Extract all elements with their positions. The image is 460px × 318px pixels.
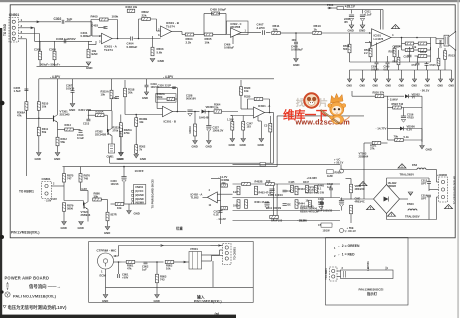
svg-text:R402B: R402B: [255, 180, 263, 184]
ground VT321: [79, 222, 84, 225]
wire IC301A out: [265, 112, 274, 114]
watermark mascot belly: [334, 117, 340, 123]
capacitor C302 series: [62, 20, 64, 24]
wire hl: [340, 198, 352, 200]
op-amp IC602-C: [231, 28, 242, 37]
resistor R500A ladder: [308, 187, 317, 190]
wire C405 left: [204, 13, 214, 15]
wire fb4 left v: [247, 99, 249, 109]
wire top rail power: [344, 9, 384, 11]
watermark mascot eyes: [334, 108, 341, 113]
wire r875 down: [63, 182, 65, 200]
junction C408: [295, 32, 297, 34]
resistor R500v: [350, 205, 353, 214]
svg-text:(4)SWH: (4)SWH: [135, 202, 144, 205]
wire c328 to diode: [193, 111, 200, 113]
ground below R603: [150, 59, 155, 62]
resistor R520: [375, 95, 384, 98]
wire ladder vertical B: [276, 184, 278, 221]
svg-text:FB2: FB2: [412, 163, 418, 167]
capacitor C318: [115, 97, 119, 99]
junction IC301B out: [177, 111, 179, 113]
wire r325 down: [194, 136, 196, 140]
bottom right box frame: [326, 238, 409, 306]
connector CN501: [9, 18, 19, 43]
ground row bottom power 2: [360, 79, 364, 82]
wire vt801 out1: [202, 254, 217, 256]
svg-text:GND: GND: [69, 108, 75, 112]
ic box IC602: [227, 21, 249, 35]
watermark mascot ears: [328, 104, 346, 108]
wire C302 to node A: [65, 21, 92, 23]
wire out net down1: [401, 38, 403, 44]
wire R314 r: [73, 129, 80, 131]
arrow on pin1 wire: [37, 21, 39, 23]
wire R323 down gnd: [135, 153, 137, 154]
wire lower net l: [402, 49, 406, 51]
svg-text:1N4148: 1N4148: [199, 116, 209, 120]
wire r523 leftv: [387, 96, 389, 107]
svg-text:片: 片: [319, 97, 328, 108]
wire diode to R304: [206, 111, 214, 113]
svg-text:+10.36V: +10.36V: [307, 176, 318, 180]
capacitor C410 ladder: [269, 189, 274, 195]
svg-text:100k: 100k: [112, 15, 119, 19]
svg-text:← 1 = RED: ← 1 = RED: [338, 253, 356, 257]
watermark mascot body: [331, 115, 343, 124]
svg-text:TO KB801: TO KB801: [19, 190, 34, 194]
ground C408: [294, 59, 299, 62]
wire R510 down: [370, 57, 372, 62]
ground right column: [420, 146, 425, 149]
wire base VT302 v: [106, 115, 108, 132]
svg-text:15/1W: 15/1W: [323, 230, 331, 233]
svg-text:GND: GND: [293, 63, 299, 67]
wire base VT302: [104, 114, 107, 116]
resistor R605: [204, 33, 213, 36]
svg-text:TRAL/26SV: TRAL/26SV: [405, 215, 420, 219]
capacitor C802 mic: [144, 262, 148, 264]
svg-text:1.35V: 1.35V: [227, 118, 234, 122]
svg-text:TO SP BOARD SKB-4B: TO SP BOARD SKB-4B: [452, 176, 456, 204]
svg-text:IC602 - CMC4558: IC602 - CMC4558: [231, 22, 242, 29]
svg-text:GND: GND: [104, 231, 110, 235]
ground row bottom power 5: [399, 79, 403, 82]
crystal inner lines: [110, 146, 113, 151]
wire fb4 down: [269, 99, 271, 113]
ground VD303: [193, 141, 198, 144]
wire ic402 right bus: [220, 179, 222, 225]
wire lower down l: [401, 44, 403, 51]
wire c801 up: [118, 262, 120, 274]
wire r518 dn: [398, 65, 400, 70]
capacitor C404 series: [131, 37, 133, 41]
wire fb3 into inv: [157, 108, 162, 110]
capacitor C306: [39, 51, 42, 60]
capacitor C514b: [427, 195, 431, 197]
wire R314 l: [58, 129, 65, 131]
capacitor C303 series: [64, 39, 66, 43]
capacitor C415 ladder: [283, 204, 287, 206]
svg-text:- 4.3FV: - 4.3FV: [163, 75, 174, 79]
wire R315 down: [111, 99, 113, 110]
wire R331 link: [231, 115, 233, 117]
wire ladder rail4: [233, 220, 341, 222]
resistor R449 ladder: [295, 186, 298, 195]
junction node B: [138, 38, 140, 40]
svg-text:C405 100pF: C405 100pF: [210, 8, 226, 12]
svg-text:- 10.36V: - 10.36V: [297, 219, 307, 223]
svg-text:R51: R51: [393, 61, 398, 64]
junction c801: [118, 261, 120, 263]
wire r876 to coll: [80, 182, 82, 190]
wire fb2 up: [138, 19, 140, 39]
wire vt321 coll up: [87, 191, 89, 202]
svg-text:C31: C31: [112, 96, 117, 100]
svg-text:R403 10k: R403 10k: [126, 5, 138, 9]
wire node rail vt302: [88, 110, 112, 112]
resistor R516 lower: [405, 49, 414, 52]
wire bus rail A: [110, 162, 274, 164]
wire ic402 in1: [217, 193, 232, 195]
wire zener rightv: [421, 129, 423, 143]
wire r880 r: [101, 199, 107, 201]
diode VD300 series: [202, 110, 206, 114]
wire R512 down: [430, 47, 432, 62]
watermark mascot hand: [330, 116, 333, 119]
wire box to cn301 b: [217, 254, 220, 256]
capacitor C408: [294, 42, 298, 44]
wire mic top v: [118, 246, 120, 257]
svg-text:GND: GND: [360, 85, 366, 88]
wire b bend up: [219, 250, 221, 255]
capacitor C504 ladder: [318, 203, 323, 209]
resistor R307: [87, 49, 90, 58]
wire ladder top rail: [233, 163, 341, 165]
wire R513 down: [444, 59, 446, 70]
wire gnd drop 1: [349, 70, 351, 79]
transistor VT301: [54, 115, 58, 123]
watermark mascot rod: [321, 110, 340, 124]
svg-text:GND: GND: [412, 85, 418, 88]
capacitor C510 filter: [349, 15, 354, 21]
resistor R514 out net1: [405, 42, 414, 45]
wire c504b dn: [341, 207, 343, 211]
svg-text:GND: GND: [229, 143, 235, 147]
wire c444 up: [321, 198, 323, 203]
wire opamp2 out bend: [181, 32, 183, 35]
junction R325 top: [194, 111, 196, 113]
wire c513 down: [428, 183, 430, 191]
wire mic main2: [122, 261, 149, 263]
capacitor C320 fb: [172, 87, 176, 89]
bottom center box frame: [89, 242, 254, 303]
wire gnd drop 6: [414, 70, 416, 79]
cn201 pin stubs: [132, 190, 134, 204]
svg-text:CM01: CM01: [107, 155, 115, 159]
resistor R405 feedback: [100, 18, 109, 21]
wire c340 down: [123, 183, 125, 204]
svg-text:R511: R511: [389, 50, 396, 54]
ground row bottom power 9: [449, 79, 453, 82]
ground R881: [105, 227, 110, 230]
svg-text:GND: GND: [359, 29, 365, 33]
wire junction to R613: [296, 32, 312, 34]
wire r522 r: [403, 139, 422, 141]
wire C405 left down: [203, 14, 205, 35]
svg-text:GND: GND: [142, 96, 148, 100]
wire C514 up: [409, 47, 411, 55]
wire C307 up: [72, 79, 74, 91]
wire ic402 in2: [217, 199, 220, 201]
wire noninv drop: [260, 121, 262, 139]
svg-text:- 14.77V: - 14.77V: [376, 127, 387, 131]
ground mid br: [408, 192, 413, 195]
wire ic402 top rail: [211, 178, 221, 180]
junction amp out2: [416, 37, 418, 39]
svg-text:5.1k: 5.1k: [404, 135, 410, 139]
wire rail drop C510: [351, 10, 353, 14]
left edge blob 3: [0, 290, 3, 293]
svg-text:R401 47-CB: R401 47-CB: [255, 200, 269, 204]
wire +B feed: [328, 7, 338, 9]
wire gnd drop 5: [401, 70, 403, 79]
wire pin1 to C302: [19, 21, 61, 23]
svg-text:(1)VCC: (1)VCC: [135, 190, 143, 193]
warning triangle near amp: [392, 25, 400, 29]
wire output into speaker2: [436, 43, 444, 45]
wire vt321 base v: [82, 201, 84, 206]
wire r320a down: [120, 137, 122, 153]
wire R310 R311 link: [38, 110, 40, 127]
resistor R523: [393, 106, 402, 109]
svg-text:CN801: CN801: [42, 177, 51, 181]
svg-text:GND: GND: [386, 85, 392, 88]
resistor R320: [135, 118, 138, 127]
resistor R513: [444, 51, 447, 60]
svg-text:C435: C435: [289, 181, 296, 184]
wire net2 r: [427, 43, 431, 45]
svg-text:R447: R447: [303, 181, 310, 184]
resistor R508: [348, 44, 351, 53]
resistor R870: [115, 203, 124, 206]
resistor R316: [95, 114, 104, 117]
wire box to cn301 a: [211, 245, 223, 247]
capacitor C313: [86, 119, 90, 121]
svg-text:C515: C515: [430, 63, 437, 67]
wire lower mid: [414, 49, 419, 51]
wire C349 down: [269, 132, 271, 163]
watermark mascot head: [330, 102, 344, 116]
wire C306 bottom lead: [39, 60, 41, 67]
wire vt321 coll lk: [81, 190, 89, 192]
wire amp output: [391, 37, 436, 39]
connector CN806: [439, 177, 448, 202]
svg-text:TO PWR BOARD SKCEI: TO PWR BOARD SKCEI: [151, 179, 155, 208]
svg-text:10k: 10k: [117, 206, 122, 210]
wire mid mic: [149, 261, 164, 263]
op-amp IC301-A: [254, 107, 265, 118]
page right edge line: [457, 0, 458, 318]
svg-text:电压为无信号时测试(伪机.10V): 电压为无信号时测试(伪机.10V): [8, 304, 68, 311]
ground R879: [62, 222, 67, 225]
zener VD506: [400, 127, 404, 131]
wire amp fb bottom: [350, 61, 431, 63]
svg-text:GND: GND: [192, 145, 198, 149]
svg-text:GND: GND: [426, 148, 432, 152]
transistor VT321: [84, 202, 88, 210]
wire R320 mid: [135, 126, 137, 144]
svg-text:1N-4B210DBR: 1N-4B210DBR: [388, 181, 397, 188]
wire r518 up: [398, 50, 400, 57]
resistor R402B ladder: [266, 183, 275, 186]
wire mic main: [114, 261, 122, 263]
resistor R602 feedback: [142, 18, 151, 21]
wire base rail VT301: [26, 117, 52, 119]
svg-text:- 50.1V: - 50.1V: [420, 89, 429, 93]
wire out2 to conn: [212, 255, 223, 257]
svg-text:← 2 = GREEN: ← 2 = GREEN: [338, 244, 361, 248]
svg-text:GND: GND: [117, 157, 123, 161]
wire R331 down: [231, 130, 233, 138]
wire r870 l: [111, 203, 116, 205]
svg-text:C410 440/10: C410 440/10: [268, 193, 283, 197]
speaker SP501: [444, 32, 456, 51]
wire C349 up: [269, 116, 271, 124]
resistor R876: [79, 174, 82, 183]
resistor R875: [63, 174, 66, 183]
svg-text:C51: C51: [412, 64, 417, 67]
capacitor C421: [219, 211, 223, 213]
wire mic gnd drop: [105, 269, 107, 295]
wire rail to amp vcc: [380, 10, 382, 30]
capacitor C328 series: [187, 110, 192, 116]
wire c443 up: [330, 184, 332, 188]
resistor R519: [437, 58, 440, 66]
page bottom dark bar: [0, 315, 236, 318]
capacitor C508: [375, 62, 379, 64]
warning triangle t3: [367, 206, 375, 210]
wire c443 dn: [330, 190, 332, 198]
wire pin4 seg2: [25, 110, 27, 118]
wire C403 stub left: [98, 27, 106, 29]
wire vt801 out2b: [211, 256, 213, 262]
wire fb3 up: [156, 88, 158, 109]
resistor R511: [393, 48, 396, 57]
ground noninv: [259, 139, 264, 142]
wire zener left: [388, 128, 401, 130]
wire feedback down to output: [117, 20, 119, 39]
wire R520 rail: [352, 95, 404, 97]
resistor R603: [151, 47, 154, 56]
capacitor C414 ladder: [283, 190, 287, 192]
svg-text:(3)GND: (3)GND: [135, 198, 144, 201]
svg-text:LA4478: LA4478: [374, 37, 384, 41]
connector CN401 led: [330, 267, 338, 281]
resistor R803 mic: [156, 274, 159, 283]
wire mid rail -B: [39, 78, 274, 80]
wire fb02 bend: [340, 164, 342, 169]
junction r320 top: [135, 114, 137, 116]
svg-text:C3140.1uF: C3140.1uF: [77, 133, 84, 140]
capacitor C517: [416, 63, 420, 65]
wire r522 lv: [387, 129, 389, 141]
svg-text:TO KBD: TO KBD: [3, 23, 7, 36]
wire R512 l: [415, 55, 419, 57]
wire cn806 in1: [437, 181, 439, 183]
svg-text:C3051.5uF: C3051.5uF: [14, 86, 22, 93]
wire C408 to gnd: [295, 45, 297, 59]
ground row bottom power 6: [412, 79, 416, 82]
svg-text:FB03: FB03: [407, 202, 414, 206]
wire output bend: [435, 38, 437, 44]
svg-text:R520 37k: R520 37k: [373, 91, 385, 95]
arrow box top rail: [161, 245, 163, 247]
diode VD502: [405, 94, 409, 98]
svg-text:指示灯: 指示灯: [367, 291, 378, 296]
wire into IC301A pin2: [231, 115, 254, 117]
page top edge shadow: [0, 0, 460, 2]
test point circle: [340, 169, 344, 173]
svg-text:C302: C302: [54, 17, 62, 21]
ground C511: [360, 25, 365, 28]
watermark mascot tail: [344, 117, 350, 121]
arrow +B: [329, 7, 331, 9]
svg-text:C5110.1uF: C5110.1uF: [365, 10, 372, 17]
resistor R325 hang: [194, 124, 197, 136]
wire R513 up: [444, 48, 446, 51]
wire C515 up: [426, 62, 428, 64]
svg-text:(2)GND: (2)GND: [135, 194, 144, 197]
svg-text:GND: GND: [399, 85, 405, 88]
wire fb2 top: [139, 18, 157, 20]
resistor R313: [25, 102, 28, 111]
capacitor C307: [71, 91, 75, 93]
wire cn806 in3: [437, 196, 439, 198]
svg-text:- 14.2V: - 14.2V: [217, 217, 226, 221]
capacitor C305 series on pin4 wire: [24, 89, 28, 91]
wire fb3 down: [176, 88, 178, 112]
wire vt302 emit down: [111, 136, 113, 144]
wire into opamp IC301B: [125, 114, 163, 116]
svg-text:GND: GND: [425, 85, 431, 88]
svg-text:R314: R314: [65, 123, 72, 127]
op-amp IC301-B: [163, 106, 173, 117]
wire c504b up: [341, 198, 343, 201]
svg-text:CTPRIM - MIC: CTPRIM - MIC: [97, 249, 118, 253]
svg-text:GND: GND: [140, 157, 146, 161]
connector CN801: [42, 182, 52, 199]
svg-text:R335: R335: [244, 95, 251, 99]
wire R330 down: [240, 95, 242, 109]
wire c313 up: [87, 111, 89, 120]
ground C347: [241, 139, 246, 142]
wire c509 up: [387, 56, 389, 62]
resistor R403 top: [127, 9, 135, 12]
wire led pin left: [337, 270, 341, 272]
wire pin3 down: [39, 34, 41, 53]
wire r523 r: [401, 107, 422, 109]
junction base node: [38, 118, 40, 120]
wire r875 up: [63, 167, 65, 174]
wire r523 l: [388, 107, 393, 109]
ground R331: [230, 139, 235, 142]
svg-text:GND: GND: [86, 66, 92, 70]
resistor R323: [135, 145, 138, 154]
svg-text:TO LN401: TO LN401: [325, 268, 328, 280]
resistor R311: [37, 127, 40, 136]
wire R511 top rail: [395, 45, 402, 47]
